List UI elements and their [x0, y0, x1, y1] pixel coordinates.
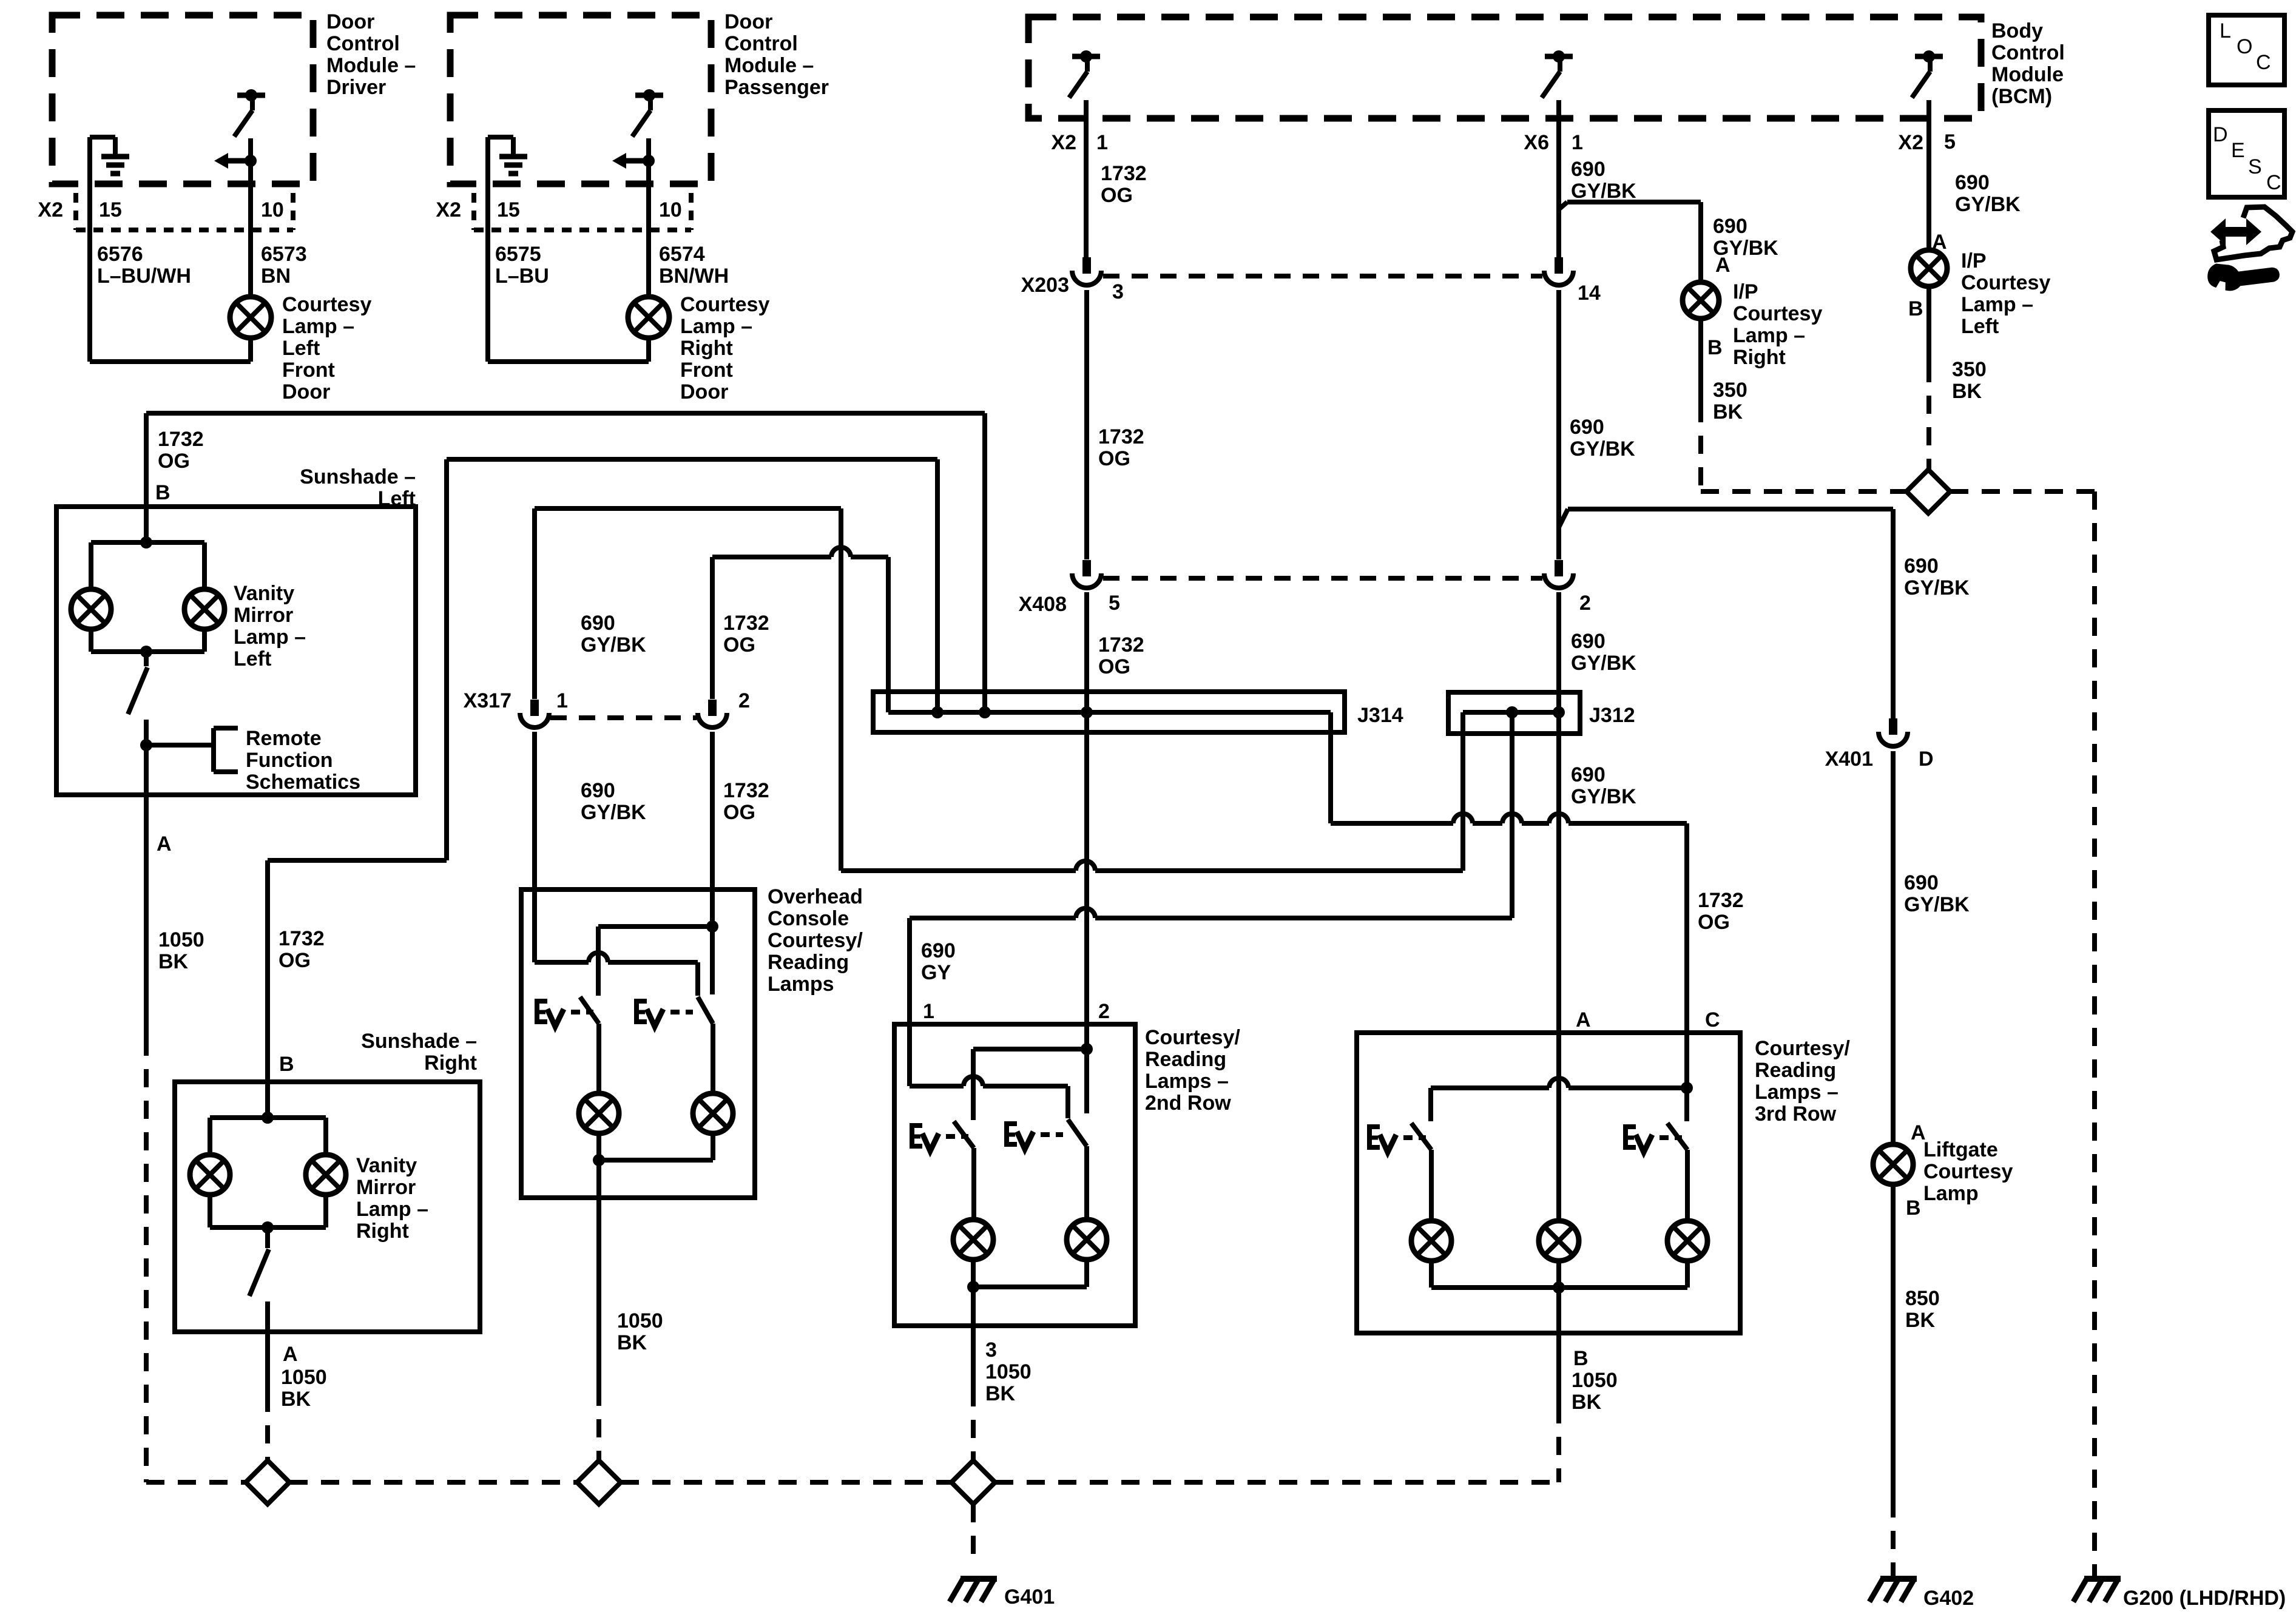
svg-text:G402: G402: [1923, 1587, 1974, 1610]
svg-text:GY/BK: GY/BK: [1904, 576, 1970, 599]
svg-text:OG: OG: [1698, 911, 1730, 934]
svg-text:1732: 1732: [1698, 889, 1744, 912]
svg-text:S: S: [2248, 155, 2262, 178]
svg-text:2: 2: [1579, 592, 1591, 615]
svg-text:1050: 1050: [1572, 1369, 1618, 1392]
svg-text:Courtesy: Courtesy: [1733, 302, 1822, 325]
svg-text:Left: Left: [234, 647, 271, 670]
svg-text:6574: 6574: [659, 243, 705, 266]
svg-text:Body: Body: [1991, 19, 2043, 42]
svg-text:X317: X317: [464, 689, 512, 712]
svg-text:A: A: [283, 1343, 298, 1366]
svg-text:Reading: Reading: [1755, 1059, 1836, 1082]
svg-text:C: C: [2256, 51, 2271, 74]
svg-text:Lamp –: Lamp –: [680, 315, 752, 338]
svg-text:690: 690: [1571, 158, 1606, 181]
svg-text:1732: 1732: [723, 612, 769, 635]
svg-text:Sunshade –: Sunshade –: [361, 1030, 477, 1053]
svg-text:3: 3: [1112, 280, 1124, 303]
svg-text:2nd Row: 2nd Row: [1145, 1092, 1231, 1115]
svg-text:Overhead: Overhead: [768, 885, 863, 908]
svg-text:Driver: Driver: [326, 76, 386, 99]
svg-text:Right: Right: [680, 337, 733, 360]
svg-text:B: B: [1707, 336, 1723, 359]
svg-text:690: 690: [1955, 171, 1990, 194]
svg-text:Courtesy: Courtesy: [282, 293, 371, 316]
svg-text:GY/BK: GY/BK: [1955, 193, 2021, 216]
svg-text:Door: Door: [282, 380, 330, 403]
svg-text:Right: Right: [1733, 346, 1786, 369]
svg-text:1732: 1732: [723, 779, 769, 802]
svg-text:Control: Control: [1991, 41, 2065, 64]
svg-text:Courtesy: Courtesy: [1961, 271, 2050, 294]
svg-text:L–BU/WH: L–BU/WH: [97, 265, 191, 288]
svg-text:3: 3: [985, 1338, 997, 1362]
svg-text:BK: BK: [1572, 1391, 1602, 1414]
svg-text:Reading: Reading: [768, 951, 849, 974]
svg-text:Right: Right: [424, 1052, 477, 1075]
svg-text:X408: X408: [1019, 593, 1067, 616]
svg-text:Door: Door: [724, 10, 772, 33]
svg-text:10: 10: [659, 198, 682, 221]
svg-text:J312: J312: [1589, 704, 1635, 727]
svg-text:Liftgate: Liftgate: [1923, 1138, 1998, 1161]
svg-text:Door: Door: [326, 10, 374, 33]
svg-text:Front: Front: [282, 359, 335, 382]
svg-text:L–BU: L–BU: [495, 265, 549, 288]
svg-text:C: C: [1705, 1008, 1720, 1031]
svg-text:G401: G401: [1004, 1585, 1055, 1609]
svg-text:850: 850: [1905, 1287, 1940, 1310]
svg-text:X2: X2: [436, 198, 461, 221]
svg-text:Lamp –: Lamp –: [1733, 324, 1805, 347]
svg-text:OG: OG: [1098, 447, 1130, 470]
svg-text:15: 15: [99, 198, 122, 221]
svg-text:1732: 1732: [1098, 633, 1144, 657]
svg-text:BK: BK: [158, 950, 189, 973]
svg-text:1050: 1050: [617, 1309, 663, 1332]
svg-text:1050: 1050: [985, 1360, 1032, 1383]
svg-text:Sunshade –: Sunshade –: [300, 465, 416, 488]
svg-text:5: 5: [1944, 130, 1956, 154]
svg-text:Courtesy/: Courtesy/: [1145, 1026, 1240, 1049]
svg-text:1732: 1732: [1101, 162, 1147, 185]
svg-text:B: B: [1573, 1347, 1589, 1370]
svg-text:Reading: Reading: [1145, 1048, 1226, 1071]
svg-text:Lamps –: Lamps –: [1755, 1081, 1838, 1104]
svg-text:Control: Control: [326, 32, 400, 55]
svg-text:A: A: [1576, 1008, 1591, 1031]
svg-text:X203: X203: [1021, 274, 1069, 297]
svg-text:14: 14: [1578, 282, 1601, 305]
svg-text:690: 690: [1571, 763, 1606, 786]
svg-text:1732: 1732: [279, 927, 325, 950]
svg-text:B: B: [155, 481, 171, 504]
svg-text:BK: BK: [1713, 400, 1743, 424]
svg-text:L: L: [2220, 19, 2231, 42]
svg-text:Courtesy: Courtesy: [680, 293, 769, 316]
svg-text:1732: 1732: [158, 428, 204, 451]
svg-text:Left: Left: [1961, 315, 1999, 338]
svg-text:OG: OG: [1101, 184, 1133, 207]
svg-text:I/P: I/P: [1961, 249, 1987, 272]
svg-text:Passenger: Passenger: [724, 76, 829, 99]
svg-text:OG: OG: [1098, 655, 1130, 678]
svg-text:690: 690: [921, 939, 956, 962]
svg-text:B: B: [1908, 297, 1923, 320]
svg-text:1: 1: [556, 689, 568, 712]
svg-text:Lamp: Lamp: [1923, 1182, 1979, 1205]
svg-text:690: 690: [1571, 630, 1606, 653]
svg-text:15: 15: [497, 198, 520, 221]
svg-text:Module –: Module –: [724, 54, 814, 77]
svg-text:Lamp –: Lamp –: [282, 315, 354, 338]
svg-text:3rd Row: 3rd Row: [1755, 1102, 1837, 1126]
svg-text:GY: GY: [921, 961, 951, 984]
svg-text:Courtesy: Courtesy: [1923, 1160, 2013, 1183]
svg-text:6573: 6573: [261, 243, 307, 266]
svg-text:BK: BK: [1952, 380, 1982, 403]
svg-text:1050: 1050: [281, 1366, 327, 1389]
svg-text:BK: BK: [281, 1388, 311, 1411]
svg-text:D: D: [1919, 748, 1934, 771]
svg-text:OG: OG: [158, 450, 190, 473]
svg-text:Left: Left: [282, 337, 320, 360]
svg-text:5: 5: [1109, 592, 1120, 615]
svg-text:GY/BK: GY/BK: [1904, 893, 1970, 916]
svg-text:2: 2: [1098, 1000, 1110, 1023]
svg-text:Courtesy/: Courtesy/: [1755, 1037, 1850, 1060]
svg-text:Module –: Module –: [326, 54, 416, 77]
svg-text:GY/BK: GY/BK: [1571, 652, 1636, 675]
svg-text:(BCM): (BCM): [1991, 85, 2052, 108]
svg-text:GY/BK: GY/BK: [1570, 437, 1635, 461]
svg-text:OG: OG: [723, 633, 755, 657]
svg-text:O: O: [2237, 35, 2252, 58]
svg-text:1050: 1050: [158, 928, 204, 951]
svg-text:690: 690: [581, 779, 615, 802]
svg-text:Lamps –: Lamps –: [1145, 1070, 1229, 1093]
svg-text:E: E: [2231, 139, 2245, 162]
svg-text:GY/BK: GY/BK: [581, 801, 646, 824]
svg-text:B: B: [279, 1053, 294, 1076]
svg-text:Schematics: Schematics: [246, 771, 360, 794]
svg-text:Front: Front: [680, 359, 733, 382]
svg-text:J314: J314: [1357, 704, 1403, 727]
svg-text:GY/BK: GY/BK: [581, 633, 646, 657]
svg-text:1: 1: [1096, 131, 1108, 154]
svg-text:Mirror: Mirror: [356, 1176, 416, 1199]
svg-text:690: 690: [581, 612, 615, 635]
svg-text:690: 690: [1713, 215, 1747, 238]
svg-text:Door: Door: [680, 380, 728, 403]
svg-text:690: 690: [1904, 871, 1939, 894]
svg-text:OG: OG: [723, 801, 755, 824]
svg-text:X2: X2: [1051, 131, 1076, 154]
svg-text:Vanity: Vanity: [234, 582, 294, 605]
svg-text:690: 690: [1570, 416, 1604, 439]
svg-text:6576: 6576: [97, 243, 143, 266]
svg-text:G200 (LHD/RHD): G200 (LHD/RHD): [2123, 1587, 2286, 1610]
svg-text:B: B: [1906, 1197, 1921, 1220]
svg-text:Courtesy/: Courtesy/: [768, 929, 863, 952]
svg-text:BK: BK: [1905, 1309, 1936, 1332]
svg-text:Remote: Remote: [246, 727, 322, 750]
svg-text:Mirror: Mirror: [234, 604, 293, 627]
svg-text:X401: X401: [1825, 748, 1873, 771]
svg-text:GY/BK: GY/BK: [1571, 785, 1636, 808]
svg-text:Lamp –: Lamp –: [234, 626, 306, 649]
svg-text:Module: Module: [1991, 63, 2064, 86]
svg-text:1: 1: [923, 1000, 934, 1023]
svg-text:A: A: [157, 832, 172, 856]
svg-text:BK: BK: [985, 1382, 1016, 1405]
svg-text:690: 690: [1904, 555, 1939, 578]
svg-text:2: 2: [738, 689, 750, 712]
svg-text:1732: 1732: [1098, 425, 1144, 448]
svg-text:Control: Control: [724, 32, 798, 55]
svg-text:X2: X2: [1898, 131, 1923, 154]
svg-text:X6: X6: [1524, 131, 1549, 154]
svg-text:Right: Right: [356, 1220, 409, 1243]
svg-text:BN: BN: [261, 265, 291, 288]
svg-text:C: C: [2266, 171, 2281, 194]
svg-text:Lamp –: Lamp –: [1961, 293, 2033, 316]
svg-text:350: 350: [1952, 358, 1987, 381]
svg-text:BK: BK: [617, 1331, 647, 1354]
svg-text:Function: Function: [246, 749, 333, 772]
svg-text:GY/BK: GY/BK: [1571, 180, 1636, 203]
svg-text:10: 10: [261, 198, 284, 221]
svg-text:Vanity: Vanity: [356, 1154, 417, 1177]
svg-text:6575: 6575: [495, 243, 541, 266]
svg-text:Lamps: Lamps: [768, 973, 834, 996]
svg-text:D: D: [2213, 123, 2228, 146]
svg-text:OG: OG: [279, 949, 311, 972]
svg-text:350: 350: [1713, 379, 1747, 402]
svg-text:1: 1: [1572, 131, 1583, 154]
svg-text:I/P: I/P: [1733, 280, 1758, 303]
svg-text:Console: Console: [768, 907, 849, 930]
svg-text:A: A: [1715, 254, 1730, 277]
svg-text:BN/WH: BN/WH: [659, 265, 729, 288]
svg-text:Lamp –: Lamp –: [356, 1198, 428, 1221]
svg-text:X2: X2: [38, 198, 63, 221]
